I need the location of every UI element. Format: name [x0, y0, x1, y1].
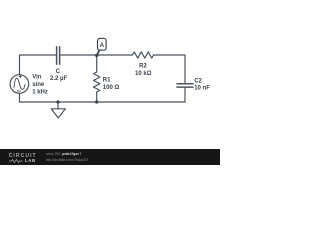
junction dot ground [56, 100, 59, 103]
svg-text:100 Ω: 100 Ω [103, 85, 120, 91]
node A junction dot [95, 54, 98, 57]
svg-text:C2: C2 [194, 79, 202, 85]
voltage source minus sign [17, 90, 20, 92]
svg-text:1 kHz: 1 kHz [32, 90, 48, 96]
svg-text:sine: sine [32, 82, 45, 88]
svg-text:10 kΩ: 10 kΩ [135, 71, 152, 77]
footer bar [0, 149, 220, 165]
wire from capacitor C to node A junction [60, 54, 97, 56]
wire from R2 to right rail down to C2 [154, 55, 186, 84]
voltage source sine wave [14, 78, 25, 89]
svg-text:A: A [100, 42, 105, 49]
resistor R1 body [94, 56, 100, 103]
svg-text:R1: R1 [103, 78, 111, 84]
wire right rail below C2 [184, 87, 186, 102]
junction dot R1 bottom [95, 100, 98, 103]
capacitor C2 plates [177, 84, 193, 87]
wire top-left from source to capacitor C [20, 55, 57, 75]
CircuitLab logo [9, 154, 37, 159]
ground symbol [51, 102, 65, 118]
svg-text:R2: R2 [139, 63, 147, 69]
node A label box [98, 38, 107, 50]
svg-text:C: C [56, 69, 61, 75]
node A leader line [97, 50, 100, 55]
wire from node A junction to R2 [97, 54, 133, 56]
capacitor C plates [57, 47, 60, 64]
voltage source V1 circle [10, 75, 29, 94]
svg-text:2.2 µF: 2.2 µF [50, 76, 67, 82]
svg-text:Vin: Vin [32, 74, 42, 80]
wire source bottom lead [19, 93, 21, 102]
svg-text:10 nF: 10 nF [194, 86, 210, 92]
voltage source plus sign [19, 75, 22, 78]
wire bottom rail [20, 101, 186, 103]
resistor R2 body [133, 52, 154, 58]
